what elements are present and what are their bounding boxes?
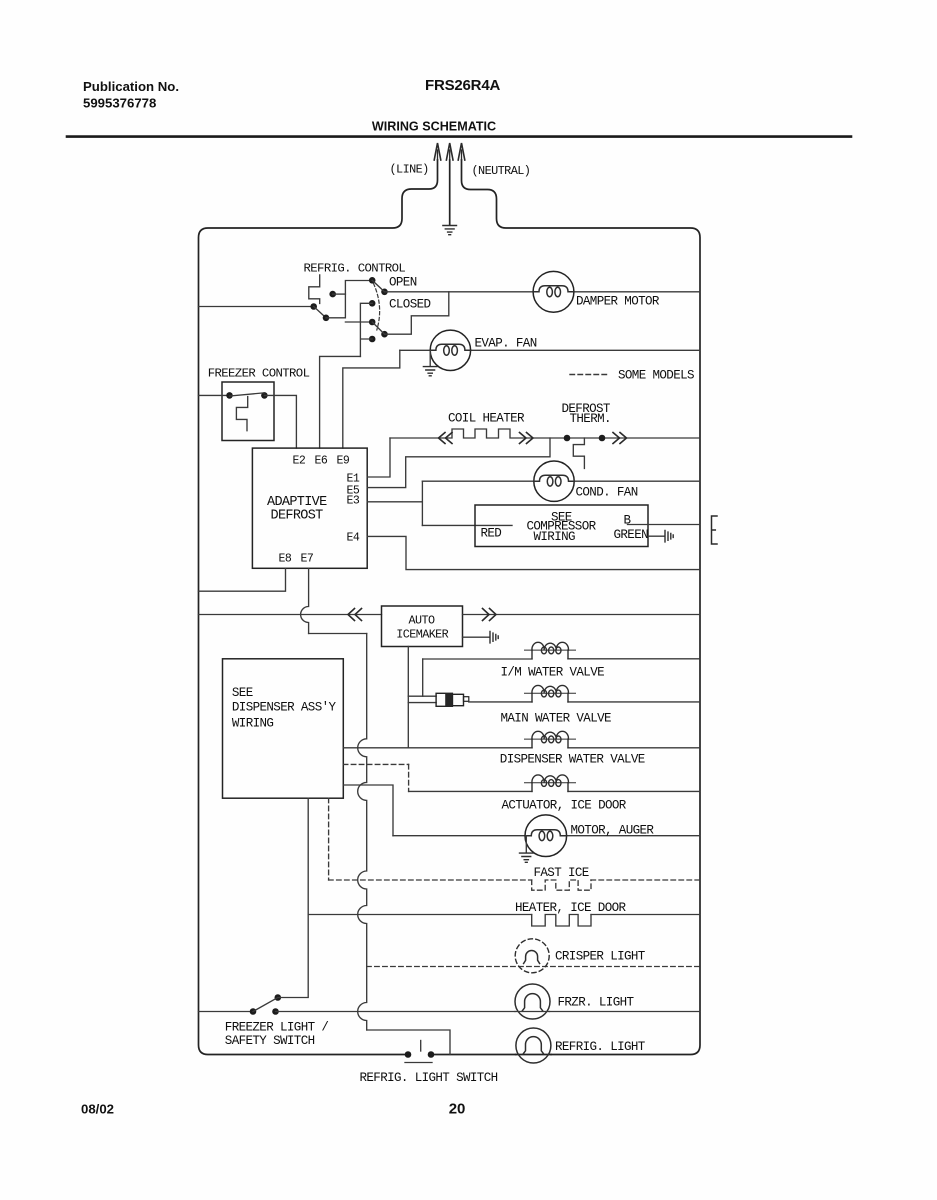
refrig control pivot contact — [329, 291, 336, 298]
frzr light row from wall — [199, 1011, 254, 1013]
ground at auger motor — [525, 836, 527, 853]
wire: icemaker row from left wall — [199, 614, 382, 616]
wire: actuator ice door row — [409, 790, 700, 792]
chassis ground at icemaker — [490, 632, 498, 643]
svg-text:FREEZER CONTROL: FREEZER CONTROL — [208, 367, 310, 381]
wire: GREEN lead to chassis ground — [648, 535, 665, 537]
wire: E5 run up to heater row — [367, 438, 550, 488]
adaptive defrost control box — [252, 448, 367, 568]
safety switch contact left — [250, 1008, 257, 1015]
plug prong arrowheads (LINE, ground, NEUTRAL) — [434, 143, 441, 160]
frzr light row to wall — [276, 1011, 701, 1013]
refrig light switch base bar — [405, 1062, 432, 1064]
svg-text:I/M WATER VALVE: I/M WATER VALVE — [501, 666, 605, 680]
svg-text:B: B — [624, 514, 632, 528]
cond fan motor circle — [534, 461, 574, 501]
refrig light circle — [516, 1028, 551, 1063]
refrig light switch contacts — [405, 1051, 412, 1058]
chevrons >> right of defrost therm — [613, 433, 627, 444]
enclosure: bottom border segment between refrig light switch and lamp — [434, 1054, 515, 1056]
svg-text:ACTUATOR, ICE DOOR: ACTUATOR, ICE DOOR — [502, 799, 627, 813]
wire: I/M valve branch vertical — [422, 659, 424, 696]
auto icemaker box — [382, 606, 463, 647]
svg-text:EVAP. FAN: EVAP. FAN — [475, 337, 537, 351]
wire: E4 row to right wall — [367, 536, 700, 569]
svg-text:FAST ICE: FAST ICE — [534, 866, 589, 880]
crisper lamp element — [524, 951, 540, 964]
svg-text:DISPENSER WATER VALVE: DISPENSER WATER VALVE — [500, 753, 645, 767]
refrig control wiper arm — [314, 307, 326, 318]
wire: dispenser box output to auger motor — [343, 785, 393, 836]
svg-text:E7: E7 — [301, 553, 314, 566]
freezer control contact left — [226, 392, 233, 399]
wire: feed branches to connector — [408, 696, 436, 702]
wire: OPEN contact B to damper motor to right wall — [385, 291, 701, 293]
svg-text:REFRIG. LIGHT: REFRIG. LIGHT — [555, 1040, 646, 1054]
freezer control sensing staircase — [236, 397, 247, 431]
wire: common vertical to contact D — [345, 321, 372, 323]
wire: arm node to common vertical — [326, 281, 372, 318]
chevrons >> after coil heater — [520, 433, 534, 444]
wire: B lead to right wall — [628, 524, 701, 526]
wire: dashed output to actuator row — [343, 763, 408, 765]
svg-text:WIRING: WIRING — [534, 530, 575, 544]
svg-text:E8: E8 — [279, 553, 292, 566]
wire: E8 to left wall — [199, 568, 286, 591]
svg-text:REFRIG. CONTROL: REFRIG. CONTROL — [304, 262, 406, 276]
wire: E6 run to adaptive defrost — [320, 356, 361, 448]
svg-text:THERM.: THERM. — [570, 412, 611, 426]
freezer control box — [222, 382, 274, 441]
contact B (OPEN output) — [381, 289, 388, 296]
svg-text:FREEZER LIGHT /: FREEZER LIGHT / — [225, 1021, 329, 1035]
wire: E7 long drop with hops — [358, 634, 367, 1031]
header rule — [67, 135, 851, 138]
ground symbol at plug — [443, 226, 457, 235]
svg-text:E2: E2 — [293, 455, 306, 468]
frzr light circle — [515, 984, 550, 1019]
wire: E7 from adaptive defrost with hop over icemaker row — [301, 568, 309, 633]
wire: cond fan row — [422, 480, 700, 482]
wire: wall into freezer control — [199, 394, 230, 396]
contact C (CLOSED output) — [381, 331, 388, 338]
fast ice heater row (dashed) — [329, 879, 700, 881]
fast ice heater element (dashed) — [532, 880, 591, 890]
svg-text:20: 20 — [449, 1101, 466, 1118]
see dispenser assy wiring box — [223, 659, 344, 798]
svg-text:REFRIG. LIGHT SWITCH: REFRIG. LIGHT SWITCH — [360, 1071, 498, 1085]
svg-text:MAIN WATER VALVE: MAIN WATER VALVE — [501, 712, 611, 726]
wire: evap fan row to right wall — [400, 349, 700, 351]
svg-text:WIRING: WIRING — [232, 717, 273, 731]
wire: heater ice door row — [308, 914, 700, 916]
svg-text:(NEUTRAL): (NEUTRAL) — [472, 164, 531, 178]
safety switch raised contact — [275, 994, 282, 1001]
wire: motor auger row — [393, 835, 700, 837]
svg-text:(LINE): (LINE) — [390, 163, 429, 177]
svg-text:OPEN: OPEN — [389, 276, 417, 290]
wire: E7 tail to refrig light switch — [367, 1030, 450, 1055]
switch arm D-C — [372, 322, 384, 334]
contact E (CLOSED fixed) — [369, 300, 376, 307]
svg-text:08/02: 08/02 — [81, 1102, 114, 1117]
wire: raised contact to dispenser box — [278, 798, 308, 997]
wire: left wall to refrig control — [199, 306, 314, 308]
chevrons >> right of icemaker — [483, 609, 497, 621]
svg-text:E3: E3 — [347, 495, 360, 508]
defrost thermostat staircase element — [573, 438, 584, 468]
svg-text:E4: E4 — [347, 532, 360, 545]
freezer control contact right — [261, 392, 268, 399]
wire: freezer control to E2 — [264, 395, 296, 448]
wire: main water valve row to wall — [568, 701, 700, 703]
ground prong stem — [449, 160, 451, 225]
safety switch arm — [253, 998, 278, 1012]
svg-text:DAMPER MOTOR: DAMPER MOTOR — [576, 295, 660, 309]
svg-text:E9: E9 — [337, 455, 350, 468]
heater ice door element — [532, 915, 591, 927]
inline connector (main valve) — [436, 693, 452, 706]
wire: connector to main valve coil — [469, 701, 532, 703]
svg-text:SOME MODELS: SOME MODELS — [618, 369, 694, 383]
wire: E3 to cond fan / red node — [367, 481, 422, 525]
legend: dashed sample line — [570, 374, 610, 376]
evap fan motor circle — [430, 330, 470, 370]
svg-text:CRISPER LIGHT: CRISPER LIGHT — [555, 950, 646, 964]
wire: dashed drop from dispenser box to fast ice — [328, 798, 330, 880]
contact F — [369, 336, 376, 343]
wire: dispenser water valve row — [343, 747, 700, 749]
wire: evap fan left drop to E9 — [343, 350, 400, 448]
solenoid coil MAIN water valve — [525, 685, 576, 701]
svg-text:MOTOR, AUGER: MOTOR, AUGER — [571, 824, 655, 838]
wire: bottom border through refrig lamp — [516, 1054, 551, 1056]
auger motor circle — [525, 815, 567, 857]
solenoid coil I/M water valve — [525, 642, 576, 658]
ground at evap fan — [429, 350, 431, 365]
refrig control thermostat sensing element — [309, 275, 320, 304]
solenoid coil ACTUATOR ICE DOOR — [525, 775, 576, 791]
switch arm A-B — [372, 280, 384, 292]
wire: E1 to coil heater row — [367, 438, 390, 477]
contact D — [369, 319, 376, 326]
contact A (OPEN fixed) — [369, 277, 376, 284]
svg-text:HEATER, ICE DOOR: HEATER, ICE DOOR — [515, 901, 626, 915]
svg-text:RED: RED — [481, 527, 502, 541]
solenoid coil DISPENSER water valve — [525, 731, 576, 747]
svg-text:E6: E6 — [315, 455, 328, 468]
damper motor circle — [533, 271, 574, 312]
enclosure: right/top with plug bump (NEUTRAL prong) — [462, 160, 701, 1055]
refrig light switch plunger — [420, 1041, 422, 1052]
safety switch contact right — [272, 1008, 279, 1015]
chevrons << on coil heater row — [439, 433, 453, 444]
svg-text:DEFROST: DEFROST — [271, 509, 324, 524]
crisper light dashed row — [367, 966, 700, 968]
wire: E7 jog right — [309, 633, 367, 635]
svg-text:Publication No.: Publication No. — [83, 79, 179, 94]
wire: icemaker ground stub — [463, 636, 490, 638]
svg-text:COND. FAN: COND. FAN — [576, 486, 638, 500]
svg-text:COIL HEATER: COIL HEATER — [448, 412, 525, 426]
coil heater row with element — [390, 429, 700, 438]
wire: RED lead into compressor box — [422, 524, 512, 526]
wire: I/M water valve row — [423, 658, 700, 660]
crisper light dashed circle — [515, 939, 549, 973]
connector bracket outside right wall — [712, 516, 718, 544]
svg-text:ICEMAKER: ICEMAKER — [396, 628, 448, 642]
enclosure: cabinet outline left/top with plug bump (LINE prong) — [199, 160, 438, 1055]
chevrons << on icemaker row — [348, 609, 362, 621]
svg-text:FRS26R4A: FRS26R4A — [425, 77, 500, 94]
dashed wiper arc — [374, 284, 380, 331]
svg-text:CLOSED: CLOSED — [389, 298, 430, 312]
svg-text:GREEN: GREEN — [614, 528, 649, 542]
compressor wiring box — [475, 505, 648, 547]
defrost thermostat junction dots — [564, 435, 571, 442]
chassis ground at GREEN — [665, 531, 673, 542]
wire: contacts E,F to E6 vertical — [360, 303, 372, 356]
wire: icemaker row to right wall — [463, 614, 701, 616]
svg-text:5995376778: 5995376778 — [83, 96, 156, 111]
svg-text:WIRING SCHEMATIC: WIRING SCHEMATIC — [372, 120, 496, 134]
wire: CLOSED contact C staircase to damper line — [385, 292, 449, 334]
svg-text:AUTO: AUTO — [409, 614, 435, 628]
svg-text:DISPENSER ASS'Y: DISPENSER ASS'Y — [232, 701, 337, 715]
freezer control switch arm — [230, 393, 265, 396]
svg-text:SAFETY SWITCH: SAFETY SWITCH — [225, 1034, 315, 1048]
svg-text:FRZR. LIGHT: FRZR. LIGHT — [558, 996, 635, 1010]
wire: icemaker box bottom feed vertical — [407, 647, 409, 748]
svg-text:SEE: SEE — [232, 686, 253, 700]
